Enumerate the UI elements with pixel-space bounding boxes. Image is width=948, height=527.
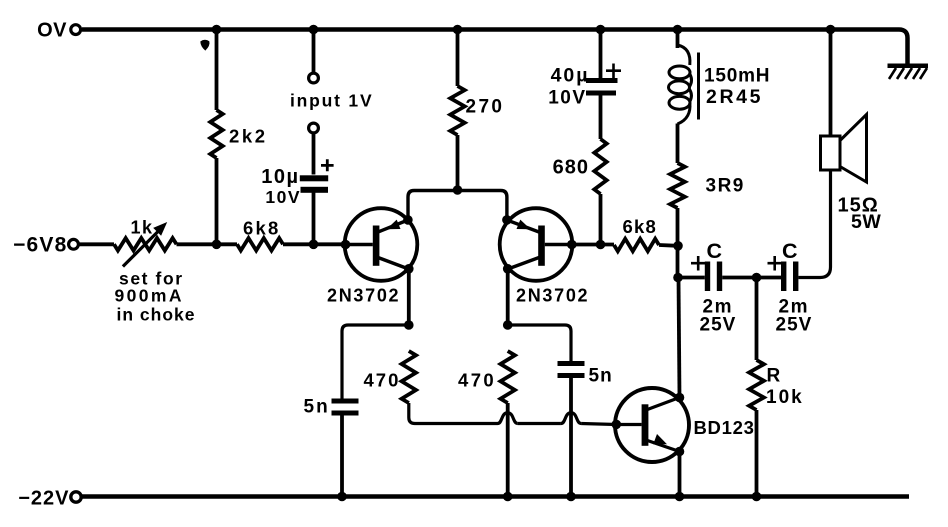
label 40u plus	[606, 64, 621, 79]
wire -6V8 to 1k	[79, 242, 115, 246]
ground symbol	[888, 66, 929, 79]
junction Q2 lower node	[503, 320, 513, 330]
wire base to BD123	[581, 424, 616, 425]
transistor Q2 2N3702	[500, 208, 573, 281]
resistor R 10k	[749, 360, 764, 410]
wire BD123 emitter to rail	[678, 452, 682, 497]
transistor Q3 BD123	[615, 388, 689, 462]
svg-text:R: R	[767, 366, 781, 387]
transistor Q1 2N3702	[345, 208, 418, 281]
terminal input lower	[309, 123, 319, 133]
wire 680 bottom	[599, 194, 603, 245]
wire C3 to speaker	[798, 172, 830, 278]
wire Q2 base to node	[572, 243, 614, 247]
junction Q1 lower node	[404, 320, 414, 330]
wire base hop over 5n right	[561, 413, 581, 424]
svg-text:5n: 5n	[304, 397, 330, 418]
junction BD123 collector	[675, 393, 685, 403]
inductor L1 150mH coil	[669, 45, 692, 124]
wire C2 to R node	[722, 276, 781, 280]
junction 10u base row	[309, 240, 319, 250]
terminal -6V8	[69, 239, 79, 249]
svg-text:3R9: 3R9	[706, 176, 745, 197]
svg-text:470: 470	[458, 370, 496, 391]
svg-text:2N3702: 2N3702	[516, 286, 589, 306]
resistor R 270	[450, 86, 464, 135]
resistor R 470 right	[501, 351, 515, 403]
svg-text:input 1V: input 1V	[290, 91, 373, 111]
wire 1k to 2k2 node	[177, 242, 238, 246]
capacitor 40u plates	[586, 78, 618, 83]
svg-text:−22V: −22V	[18, 488, 69, 510]
junction Q1 collector exit	[404, 264, 414, 274]
wire 470 right to rail	[506, 403, 510, 497]
resistor R 680	[594, 139, 606, 194]
speaker LS1	[821, 115, 867, 183]
wire R10k top	[755, 278, 759, 361]
wire 2k2 bottom	[215, 158, 219, 244]
wire Q1 collector down	[407, 269, 411, 325]
wire Q1-Q2 emitter link	[408, 191, 507, 221]
junction top rail input	[309, 25, 319, 35]
junction R 10k node	[752, 273, 762, 283]
label C1 plus	[321, 159, 334, 171]
junction 2k2 base row	[212, 240, 222, 250]
wire 5n left to rail	[340, 416, 344, 497]
junction top rail 270	[453, 25, 463, 35]
svg-text:C: C	[707, 239, 723, 263]
svg-text:5n: 5n	[589, 366, 613, 387]
svg-text:10V: 10V	[265, 187, 301, 207]
resistor R 6k8 right	[614, 239, 659, 251]
svg-text:2k2: 2k2	[229, 126, 268, 147]
svg-text:1k: 1k	[131, 218, 154, 238]
terminal input upper	[309, 73, 319, 83]
wire C node to C2	[678, 276, 705, 280]
junction 6k8 choke node	[673, 241, 683, 251]
wire base hop over 470 right	[498, 413, 518, 424]
svg-text:900mA: 900mA	[115, 286, 184, 306]
junction 680 base node	[596, 240, 606, 250]
mark small arrow below rail	[200, 40, 209, 51]
junction 270 emitter wire	[453, 185, 463, 195]
resistor R 470 left	[402, 351, 416, 403]
wire node to 5n right	[508, 325, 571, 362]
junction BD123 rail	[675, 492, 685, 502]
svg-text:5W: 5W	[851, 211, 881, 233]
inductor core bar	[697, 53, 700, 120]
potentiometer 1k	[114, 238, 177, 250]
svg-text:10V: 10V	[548, 88, 586, 109]
wire node to 5n left	[342, 325, 409, 399]
svg-text:10k: 10k	[766, 387, 804, 408]
capacitor C3 plates	[781, 262, 786, 292]
svg-text:25V: 25V	[700, 315, 737, 336]
wire input stub	[312, 30, 316, 73]
svg-text:40µ: 40µ	[551, 65, 590, 87]
wire 270 bottom	[456, 135, 460, 191]
wire choke to 3R9	[676, 124, 680, 164]
resistor R 2k2	[210, 110, 222, 158]
svg-text:2R45: 2R45	[706, 86, 763, 108]
wire 5n right to rail	[569, 378, 573, 497]
svg-text:6k8: 6k8	[623, 216, 657, 237]
resistor R 6k8 left	[237, 238, 283, 250]
wire -22V bottom rail	[82, 494, 909, 499]
junction top rail speaker	[826, 25, 836, 35]
capacitor C1 10u plates	[300, 175, 328, 181]
junction top rail choke	[673, 25, 683, 35]
svg-text:OV: OV	[37, 20, 67, 42]
wire input to C1	[312, 133, 316, 175]
junction BD123 emitter	[675, 447, 685, 457]
label set for 900mA in choke	[115, 269, 196, 325]
junction Q1 base	[341, 240, 351, 250]
label C3 plus	[768, 256, 783, 271]
wire 0V top rail	[82, 30, 908, 65]
junction Q1 emitter exit	[403, 215, 413, 225]
junction Q2 emitter exit	[502, 215, 512, 225]
junction 470 right rail	[503, 492, 513, 502]
svg-text:C: C	[782, 239, 798, 263]
svg-text:in choke: in choke	[117, 305, 196, 325]
svg-text:10µ: 10µ	[261, 166, 299, 188]
junction C node	[673, 273, 683, 283]
svg-text:150mH: 150mH	[704, 66, 770, 87]
wire node to BD123 collector	[679, 278, 680, 398]
label C2 plus	[691, 256, 706, 271]
wire speaker top	[829, 30, 833, 137]
svg-text:BD123: BD123	[694, 417, 755, 438]
pot 1k wiper arrow	[123, 232, 158, 267]
wire 2k2 top	[215, 30, 219, 111]
junction 5n left rail	[337, 492, 347, 502]
wire 40u top	[599, 30, 603, 79]
junction Q2 base	[567, 240, 577, 250]
junction top rail 40u	[596, 25, 606, 35]
svg-text:−6V8: −6V8	[13, 234, 67, 257]
wire R10k bottom	[755, 410, 759, 497]
wire C1 to base row	[312, 192, 316, 244]
resistor R 3R9	[670, 163, 685, 208]
junction R10k rail	[752, 492, 762, 502]
svg-text:270: 270	[466, 97, 505, 118]
svg-text:6k8: 6k8	[243, 218, 280, 239]
capacitor C5 5n plates	[558, 361, 585, 366]
wire 270 top	[456, 30, 460, 87]
junction BD123 base	[612, 420, 622, 430]
wire choke top	[676, 30, 680, 49]
svg-text:680: 680	[553, 157, 589, 179]
capacitor C4 5n plates	[332, 399, 359, 404]
wire base mid segment	[518, 422, 561, 425]
wire 40u to 680	[599, 96, 603, 140]
capacitor C2 plates	[705, 262, 710, 292]
svg-text:25V: 25V	[776, 315, 813, 336]
wire 3R9 to cap node	[676, 208, 680, 278]
junction Q2 collector exit	[503, 264, 513, 274]
svg-text:470: 470	[364, 370, 401, 391]
terminal 0V	[71, 25, 81, 35]
terminal -22V	[71, 492, 81, 502]
wire Q2 collector down	[506, 269, 510, 325]
junction top rail 2k2	[212, 25, 222, 35]
junction 5n right rail	[566, 492, 576, 502]
wire 6k8 right to node	[659, 243, 678, 248]
svg-text:2N3702: 2N3702	[327, 286, 400, 306]
wire 6k8 to Q1 base	[283, 242, 345, 246]
wire 470 left corner to base wire	[409, 403, 498, 424]
